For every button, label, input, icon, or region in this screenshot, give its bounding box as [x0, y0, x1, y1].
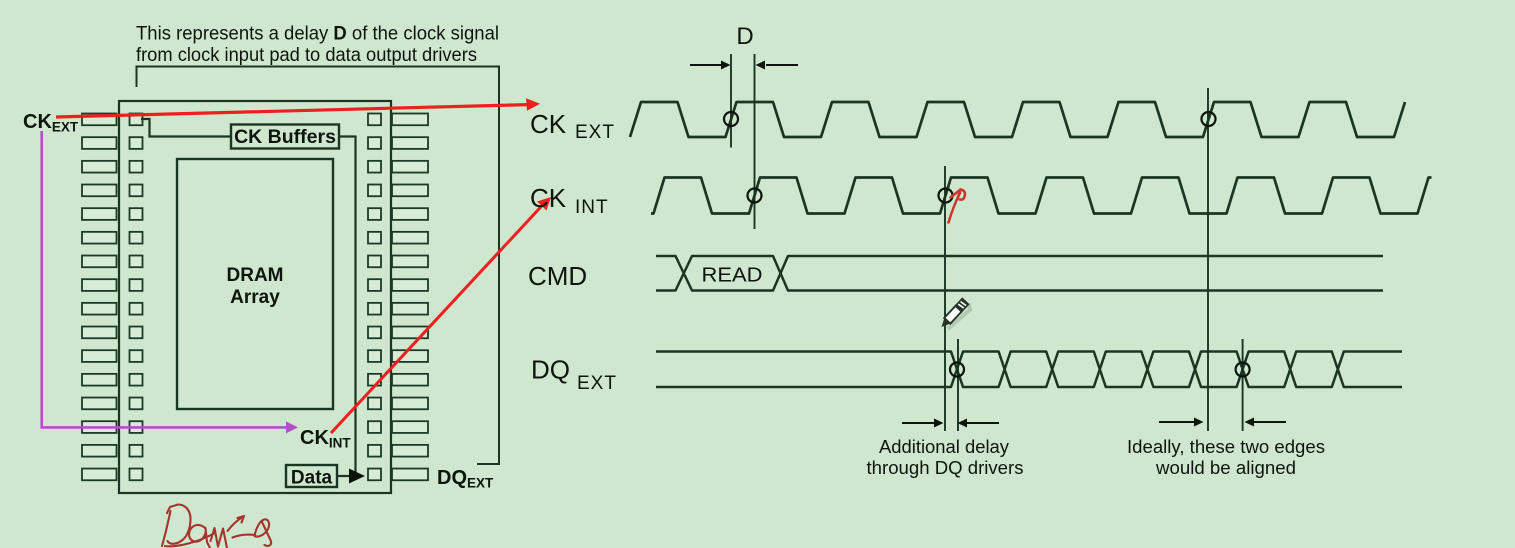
- annotation bracket: [137, 67, 500, 465]
- circle on CK_INT edge 1: [748, 189, 762, 203]
- svg-text:INT: INT: [575, 197, 609, 218]
- svg-text:from clock input pad to data o: from clock input pad to data output driv…: [136, 44, 477, 66]
- CK_INT waveform: [651, 178, 1432, 214]
- right outer pin row (16 pins): [392, 114, 428, 481]
- ideal alignment dimension arrows: [1159, 421, 1286, 423]
- red sketch arrow on CK_INT edge: [949, 190, 965, 223]
- DQ edge marker line: [957, 339, 959, 431]
- svg-text:Array: Array: [230, 287, 280, 308]
- svg-text:Ideally, these two edges: Ideally, these two edges: [1127, 437, 1325, 457]
- CK_EXT waveform: [630, 102, 1405, 137]
- D dimension arrows: [690, 64, 798, 66]
- CK_INT edge marker line: [944, 166, 946, 431]
- circle on DQ edge 2: [1236, 363, 1250, 377]
- purple CK routing line: [42, 131, 288, 427]
- right inner pad column (16 pads): [368, 114, 381, 481]
- red arrowhead 1: [526, 98, 540, 111]
- svg-text:DRAM: DRAM: [227, 265, 284, 286]
- red arrow CK_INT to timing diagram: [331, 204, 544, 434]
- pencil icon: [938, 298, 972, 333]
- circle on CK_INT edge 2: [939, 189, 953, 203]
- DRAM Array box: [177, 159, 333, 409]
- annotation: ideally aligned: [1127, 437, 1325, 478]
- svg-text:D: D: [736, 23, 753, 50]
- svg-text:CK: CK: [530, 183, 567, 213]
- purple arrowhead: [286, 421, 298, 433]
- svg-text:would be aligned: would be aligned: [1155, 458, 1296, 478]
- CK Buffers box: [231, 125, 339, 149]
- D delay left marker line: [730, 54, 732, 148]
- svg-text:Data: Data: [291, 468, 333, 489]
- CMD bus line A: [656, 256, 1383, 291]
- Data output arrow: [337, 475, 350, 477]
- wire CK pad to CK Buffers: [141, 119, 231, 137]
- CK_EXT later edge marker line: [1207, 88, 1209, 431]
- additional delay dimension arrows: [902, 422, 999, 424]
- svg-text:CK: CK: [530, 109, 567, 139]
- circle on DQ edge 1: [950, 363, 964, 377]
- annotation text top: [136, 23, 499, 67]
- DQ bus line B: [656, 352, 1402, 388]
- red arrow CK_EXT to timing diagram: [56, 105, 528, 117]
- CMD bus line B: [656, 256, 1383, 291]
- circle on CK_EXT edge 1: [724, 112, 738, 126]
- annotation: additional delay: [867, 437, 1024, 478]
- circle on CK_EXT edge 2: [1202, 112, 1216, 126]
- red arrowhead 2: [537, 197, 551, 211]
- handwritten signature Dave: [162, 505, 271, 548]
- svg-text:This represents a delay D of t: This represents a delay D of the clock s…: [136, 23, 499, 45]
- wire CK Buffers to Data pin: [339, 137, 356, 477]
- DQ bus line A: [656, 352, 1402, 388]
- left outer pin row (16 pins): [82, 114, 117, 481]
- svg-text:EXT: EXT: [577, 373, 617, 394]
- svg-text:Additional delay: Additional delay: [879, 437, 1009, 457]
- svg-text:CMD: CMD: [528, 261, 587, 291]
- chip package outline: [119, 101, 391, 493]
- DQ later edge marker line: [1242, 339, 1244, 431]
- svg-text:DQ: DQ: [531, 355, 570, 385]
- Data box: [286, 465, 337, 487]
- D delay right marker line: [754, 54, 756, 229]
- svg-text:through DQ drivers: through DQ drivers: [867, 458, 1024, 478]
- DRAM Array label: [227, 265, 284, 308]
- svg-text:CK Buffers: CK Buffers: [234, 126, 336, 148]
- left inner pad column (16 pads): [130, 114, 143, 481]
- svg-text:EXT: EXT: [575, 122, 615, 143]
- svg-text:READ: READ: [702, 265, 763, 287]
